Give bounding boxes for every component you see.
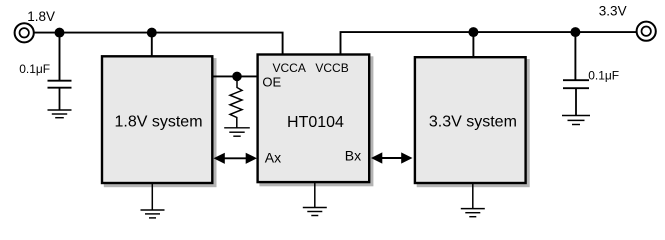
svg-text:3.3V: 3.3V <box>599 4 627 19</box>
svg-text:VCCA: VCCA <box>273 61 306 75</box>
svg-text:0.1μF: 0.1μF <box>588 68 619 82</box>
svg-text:HT0104: HT0104 <box>287 114 344 131</box>
svg-text:OE: OE <box>262 75 281 90</box>
svg-text:1.8V system: 1.8V system <box>114 113 202 130</box>
svg-text:0.1μF: 0.1μF <box>19 62 50 76</box>
svg-text:3.3V system: 3.3V system <box>429 113 517 130</box>
svg-text:VCCB: VCCB <box>315 61 348 75</box>
svg-text:1.8V: 1.8V <box>27 9 55 24</box>
svg-text:Ax: Ax <box>265 149 281 165</box>
svg-text:Bx: Bx <box>345 147 361 163</box>
